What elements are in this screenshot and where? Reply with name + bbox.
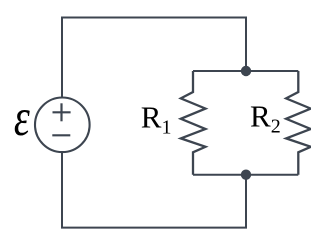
wire: top rail of parallel network <box>193 70 298 72</box>
battery source circle U1 <box>35 98 90 153</box>
resistor R1 zigzag <box>181 71 206 175</box>
minus sign inside source <box>52 134 70 136</box>
resistor R2 zigzag <box>286 71 311 175</box>
wire: bottom rail of parallel network <box>193 174 298 176</box>
svg-text:R2: R2 <box>250 99 281 138</box>
svg-text:R1: R1 <box>141 99 172 138</box>
node junction dot bottom <box>241 170 251 180</box>
wire: top horizontal from battery to right drop <box>62 18 246 98</box>
node junction dot top <box>241 66 251 76</box>
svg-text:ε: ε <box>14 89 30 148</box>
plus sign inside source <box>53 103 71 121</box>
wire: bottom horizontal from battery to right riser <box>62 152 246 228</box>
